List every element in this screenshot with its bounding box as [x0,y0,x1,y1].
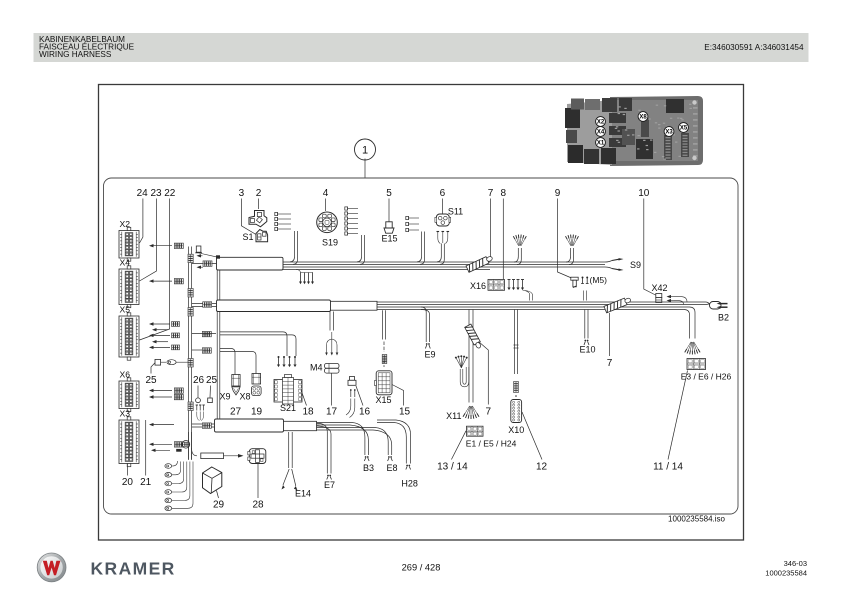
header bar [34,33,809,62]
arrow row small [155,449,171,451]
svg-text:28: 28 [252,500,264,511]
svg-text:E1 / E5 / H24: E1 / E5 / H24 [466,439,517,449]
Kramer logo [37,553,66,582]
S11 pigtail wires [438,232,441,244]
svg-text:S11: S11 [448,207,463,217]
svg-text:S21: S21 [280,403,296,413]
arrows row X4 [153,280,173,282]
svg-text:B3: B3 [363,463,374,473]
svg-text:27: 27 [230,407,242,418]
inline sleeve [192,448,197,456]
branch to bar2 [192,303,217,305]
PCB callout X4 [596,127,606,137]
svg-text:E14: E14 [295,489,311,499]
trunk spine between bars [216,270,218,300]
svg-text:X8: X8 [239,392,250,402]
svg-text:13 / 14: 13 / 14 [437,462,468,473]
arrows row X2 [153,245,173,247]
svg-text:X42: X42 [651,283,667,293]
ring terminal 6 [165,506,172,511]
svg-text:21: 21 [140,477,152,488]
svg-text:X2: X2 [120,219,131,229]
corrugated tube on mid bundle [604,296,632,313]
svg-text:X6: X6 [120,370,131,380]
svg-text:X2: X2 [597,120,605,126]
svg-text:1000235584: 1000235584 [765,569,807,578]
lead fan near S1 [275,212,291,230]
svg-text:4: 4 [323,188,329,199]
broom fan 2 on top bundle [566,235,579,246]
drop pins below bar1 [296,270,313,273]
connector E1/E5/H24 [467,426,484,436]
PCB callout X5 [679,123,689,133]
ring terminal 1 [165,464,172,469]
broom fan 1 on top bundle [513,235,526,246]
svg-text:X10: X10 [508,425,524,435]
svg-text:X4: X4 [120,258,131,268]
svg-text:2: 2 [256,188,262,199]
riser to trunk (E15 fan) [417,232,422,262]
svg-text:E15: E15 [381,234,397,244]
callout circle 1 [355,139,376,160]
svg-text:17: 17 [326,407,338,418]
B3 tip [365,456,367,458]
connector X3 [119,417,139,467]
X10 drop [513,310,515,375]
svg-text:18: 18 [302,407,314,418]
pins near X16 [508,280,510,288]
svg-text:KRAMER: KRAMER [91,559,176,579]
svg-text:7: 7 [607,358,613,369]
svg-text:29: 29 [213,500,225,511]
svg-text:X5: X5 [120,305,131,315]
mid trunk bundle wires [377,301,706,303]
connector X2 [119,227,139,261]
corrugated tube on top bundle [466,255,494,273]
svg-text:24: 24 [137,188,149,199]
svg-text:10: 10 [638,188,650,199]
arrows rows X6 [153,390,173,392]
harness boundary rounded box [104,178,739,514]
B2 tail [706,302,711,306]
PCB callout X3 [664,127,674,137]
svg-text:20: 20 [122,477,134,488]
svg-text:7: 7 [486,407,492,418]
arrows cluster X5 [153,323,171,325]
svg-text:WIRING HARNESS: WIRING HARNESS [39,50,112,59]
svg-text:X15: X15 [375,395,391,405]
pins near M5 [582,278,584,284]
trunk bead [188,308,193,317]
E9 drop [421,307,426,342]
svg-text:S9: S9 [630,260,641,270]
svg-text:15: 15 [399,407,411,418]
svg-text:X16: X16 [470,281,486,291]
PCB callout X8 [638,112,648,122]
arrows row X3 [153,443,173,445]
connector 28 [248,449,266,464]
svg-text:5: 5 [386,188,392,199]
4 hanging pins [278,357,280,365]
svg-text:X11: X11 [446,411,461,421]
dotted fan + U loop [455,355,468,368]
svg-text:E9: E9 [424,350,435,360]
terminal + lug row [155,359,161,365]
svg-text:25: 25 [206,375,218,386]
trunk bar 3 [215,419,284,432]
connector S1 upper housing [249,211,267,227]
connector X16 [488,280,505,291]
svg-text:E10: E10 [579,345,595,355]
trunk bar 2 [217,300,331,312]
svg-text:E8: E8 [386,463,397,473]
S9 end leads [605,261,612,263]
riser to trunk (S11) [437,244,441,262]
bolt M5 [571,277,578,280]
leader from circle 1 [364,159,366,179]
trunk lower vertical [188,432,190,460]
X11 broom [463,406,479,419]
cable clamp [196,246,201,252]
main left trunk wire [188,247,190,460]
lamp E15 [386,222,392,228]
leads above M4 [329,312,331,331]
svg-text:1000235584.iso: 1000235584.iso [668,515,725,524]
connector X15 [375,371,393,395]
svg-text:7: 7 [488,188,494,199]
svg-text:3: 3 [239,188,245,199]
PCB controller photo [565,96,703,166]
lead fan right of E15 [406,216,419,231]
svg-text:12: 12 [536,462,548,473]
E10 drop [584,310,586,339]
M4 connector [325,364,340,369]
trunk bead [188,359,193,368]
trunk bar 1 [217,257,284,270]
outer drawing frame [99,85,744,541]
E7 drop [317,424,328,474]
svg-text:S1: S1 [242,232,253,242]
E8 tip [388,456,390,458]
3 pins below [196,405,198,411]
svg-text:X5: X5 [680,126,688,132]
svg-text:X9: X9 [219,392,230,402]
bolt 16 [350,377,355,381]
connector X8 [252,374,261,385]
connector X10 [511,400,522,423]
leader 28 [257,464,259,499]
wire below X16 pins [523,290,530,301]
svg-text:22: 22 [164,188,176,199]
lead fan right of S19 [345,207,358,235]
branch to bar3 [192,423,215,425]
svg-text:E3 / E6 / H26: E3 / E6 / H26 [681,372,732,382]
svg-text:269 / 428: 269 / 428 [402,563,441,573]
svg-text:25: 25 [145,375,157,386]
svg-text:23: 23 [150,188,162,199]
connector X4 [119,266,139,308]
branch wire pair2 to X9 X8 [220,349,235,375]
svg-text:11 / 14: 11 / 14 [653,462,683,473]
pins below bolt16 [350,391,352,398]
svg-text:9: 9 [555,188,561,199]
trunk bead [188,289,193,298]
ring terminal 3 [165,481,172,486]
connector S21 [274,375,302,405]
riser to trunk (S1 fan) [290,231,295,262]
PCB callout X2 [596,117,606,127]
connector S19 round [317,212,338,233]
svg-text:X4: X4 [597,130,605,136]
trunk bead [188,402,193,411]
branch to bar1 [192,263,217,265]
E3 broom [685,342,700,355]
X42 pig-tail arrows [670,296,674,298]
short drop below M5 [583,291,585,301]
svg-text:6: 6 [440,188,446,199]
svg-text:X1: X1 [597,141,605,147]
svg-text:X8: X8 [639,115,647,121]
connector X9 [232,375,240,387]
corrugated tube on X11 drop [465,324,483,349]
E14 drop [288,432,290,468]
ring terminal 4 [165,490,172,495]
connector S1 lower housing [256,230,268,242]
svg-text:19: 19 [251,407,263,418]
connector X5 [119,313,139,360]
svg-text:E:346030591 A:346031454: E:346030591 A:346031454 [704,43,804,52]
connector S11 [435,214,451,226]
svg-text:(M5): (M5) [590,275,608,285]
connector E3/E6/H26 [687,359,706,370]
X11 drop [468,310,470,403]
svg-text:M4: M4 [310,363,323,373]
connector X42 [656,294,662,298]
svg-text:H28: H28 [401,479,418,489]
top trunk bundle wires [283,261,605,263]
H28 tip [406,465,408,467]
arrow row mid [153,424,175,426]
trunk bead [188,254,193,263]
leader 29 [217,491,219,499]
ring terminal 2 [165,473,172,478]
svg-text:X3: X3 [120,409,131,419]
branch wire pair1 to pins [220,332,287,356]
svg-text:1: 1 [362,145,368,157]
svg-text:346-03: 346-03 [784,559,807,568]
ring terminal 5 [165,498,172,503]
riser to trunk (S19 fan) [357,235,362,262]
svg-text:16: 16 [359,407,371,418]
relay box 29 [203,467,222,494]
fan curves from bar3 to B3/E8/H28 [317,423,365,456]
svg-text:B2: B2 [718,313,729,323]
svg-text:26: 26 [193,375,205,386]
svg-text:S19: S19 [322,238,338,248]
X15 drop [382,310,384,339]
svg-text:8: 8 [501,188,507,199]
PCB callout X1 [596,138,606,148]
svg-text:X3: X3 [665,130,673,136]
svg-text:E7: E7 [324,480,335,490]
connector X6 [119,378,139,412]
